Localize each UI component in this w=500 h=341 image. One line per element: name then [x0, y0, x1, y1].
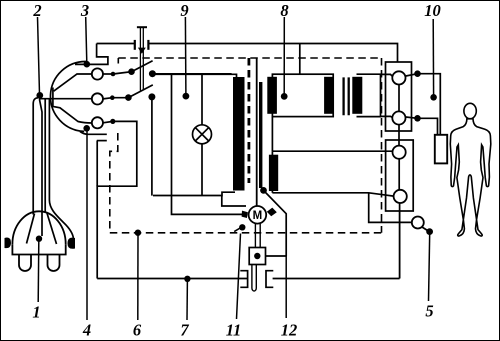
- svg-text:2: 2: [32, 1, 41, 20]
- svg-text:8: 8: [280, 1, 288, 20]
- svg-text:5: 5: [425, 302, 433, 321]
- svg-text:4: 4: [82, 321, 91, 340]
- svg-text:7: 7: [180, 321, 189, 340]
- svg-text:3: 3: [80, 1, 89, 20]
- svg-text:M: M: [253, 210, 263, 222]
- svg-text:10: 10: [424, 1, 441, 20]
- svg-text:9: 9: [180, 1, 188, 20]
- svg-text:1: 1: [32, 303, 40, 322]
- svg-text:11: 11: [226, 321, 242, 340]
- svg-text:6: 6: [133, 321, 142, 340]
- svg-text:12: 12: [281, 321, 298, 340]
